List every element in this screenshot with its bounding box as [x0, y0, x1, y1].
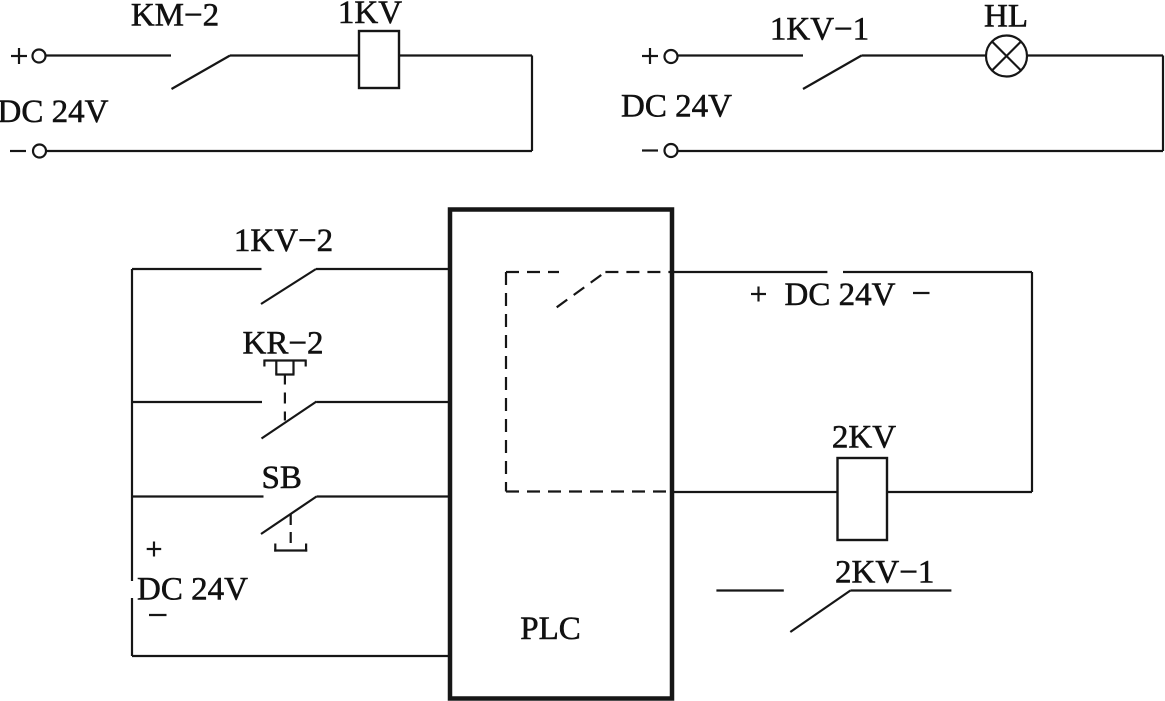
- lamp HL: [986, 36, 1027, 77]
- switch 1KV-1 blade: [803, 56, 862, 90]
- relay coil 1KV: [359, 31, 399, 88]
- wire output top: [674, 271, 1032, 273]
- dashed internal output rectangle top edge: [506, 271, 559, 273]
- dashed internal output rectangle left edge: [505, 272, 507, 492]
- wire: [46, 54, 172, 56]
- dashed internal output rectangle top edge right part: [605, 271, 674, 273]
- plus terminal (top-right supply): [642, 48, 678, 64]
- plus sign (output supply): [751, 287, 766, 302]
- wire: [46, 150, 532, 152]
- svg-text:KR−2: KR−2: [243, 326, 324, 362]
- svg-text:SB: SB: [262, 460, 302, 496]
- wire: [1162, 56, 1164, 152]
- svg-text:1KV−2: 1KV−2: [234, 223, 333, 259]
- switch 1KV-2 blade: [261, 269, 316, 304]
- wire row 1: [132, 268, 262, 270]
- wire: [317, 401, 451, 403]
- pushbutton cap SB: [274, 544, 307, 552]
- svg-text:2KV−1: 2KV−1: [835, 555, 934, 591]
- switch KR-2 blade: [262, 402, 317, 439]
- wire: [678, 54, 804, 56]
- dashed internal output rectangle bottom edge: [506, 490, 673, 492]
- minus terminal (top-right supply): [642, 144, 678, 157]
- svg-text:DC 24V: DC 24V: [0, 94, 109, 130]
- minus terminal (top-left supply): [10, 145, 46, 158]
- switch 2KV-1 blade: [790, 591, 850, 633]
- wire: [862, 54, 987, 56]
- wire output bottom right: [887, 491, 1032, 493]
- svg-text:1KV: 1KV: [338, 0, 402, 31]
- wire row 3: [132, 495, 264, 497]
- dashed actuator link KR-2: [284, 376, 286, 422]
- svg-text:DC 24V: DC 24V: [785, 277, 896, 313]
- dashed output contact blade: [557, 272, 606, 307]
- wire bottom return row: [132, 655, 450, 657]
- minus sign (bottom-left supply): [149, 614, 167, 616]
- svg-text:KM−2: KM−2: [131, 0, 219, 34]
- wire: [230, 54, 359, 56]
- switch SB blade: [261, 497, 317, 535]
- wire: [678, 150, 1163, 152]
- wire row 2: [132, 401, 262, 403]
- wire output right vertical: [1031, 272, 1033, 492]
- wire: [316, 268, 450, 270]
- wire 2KV-1 right lead: [850, 589, 951, 591]
- wire: [399, 54, 532, 56]
- wire: [531, 56, 533, 152]
- dashed actuator link SB: [290, 514, 292, 550]
- switch KM-2 blade: [172, 56, 231, 90]
- relay coil 2KV: [838, 458, 888, 540]
- wire output bottom left: [674, 491, 838, 493]
- left bus wire: [131, 269, 133, 656]
- svg-text:DC 24V: DC 24V: [621, 89, 732, 125]
- minus sign (output supply): [913, 292, 930, 294]
- wire: [317, 495, 451, 497]
- svg-text:PLC: PLC: [520, 611, 581, 647]
- PLC box: [450, 210, 672, 699]
- plus terminal (top-left supply): [11, 48, 46, 64]
- wire 2KV-1 left lead: [716, 589, 783, 591]
- svg-text:2KV: 2KV: [832, 420, 896, 456]
- svg-text:HL: HL: [984, 0, 1028, 35]
- svg-text:1KV−1: 1KV−1: [770, 12, 869, 48]
- plus sign (bottom-left supply): [147, 542, 162, 557]
- svg-text:DC 24V: DC 24V: [137, 572, 248, 608]
- thermal relay element KR-2: [264, 360, 305, 375]
- wire: [1027, 54, 1163, 56]
